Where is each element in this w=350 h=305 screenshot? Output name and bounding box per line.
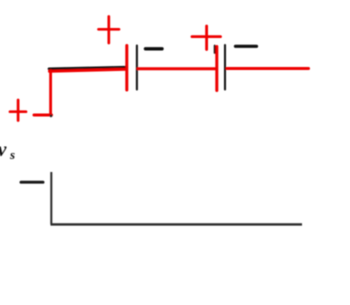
- capacitor C1 black right plate: [136, 46, 138, 90]
- waveform level dash: [21, 181, 43, 184]
- wire red bottom leg: [34, 114, 52, 117]
- polarity - C1: [146, 47, 163, 50]
- capacitor C2 red left plate: [215, 47, 218, 91]
- capacitor C1 red left plate: [125, 46, 128, 91]
- waveform baseline: [51, 223, 303, 225]
- wire red middle horizontal: [138, 67, 215, 70]
- capacitor C2 black plate remnant: [214, 46, 216, 54]
- polarity + C1: [99, 17, 120, 44]
- polarity - C2: [236, 45, 257, 48]
- polarity + C2: [192, 26, 221, 50]
- wire black top segment: [49, 67, 126, 69]
- svg-text:v: v: [0, 139, 8, 161]
- waveform step vertical: [50, 172, 52, 224]
- wire red right horizontal: [227, 67, 309, 70]
- junction dot: [50, 114, 53, 117]
- wire red trace left horizontal: [50, 69, 126, 71]
- svg-text:s: s: [9, 147, 15, 162]
- wire red vertical left: [49, 71, 52, 116]
- polarity + source: [10, 100, 26, 121]
- capacitor C2 black right plate: [224, 45, 226, 90]
